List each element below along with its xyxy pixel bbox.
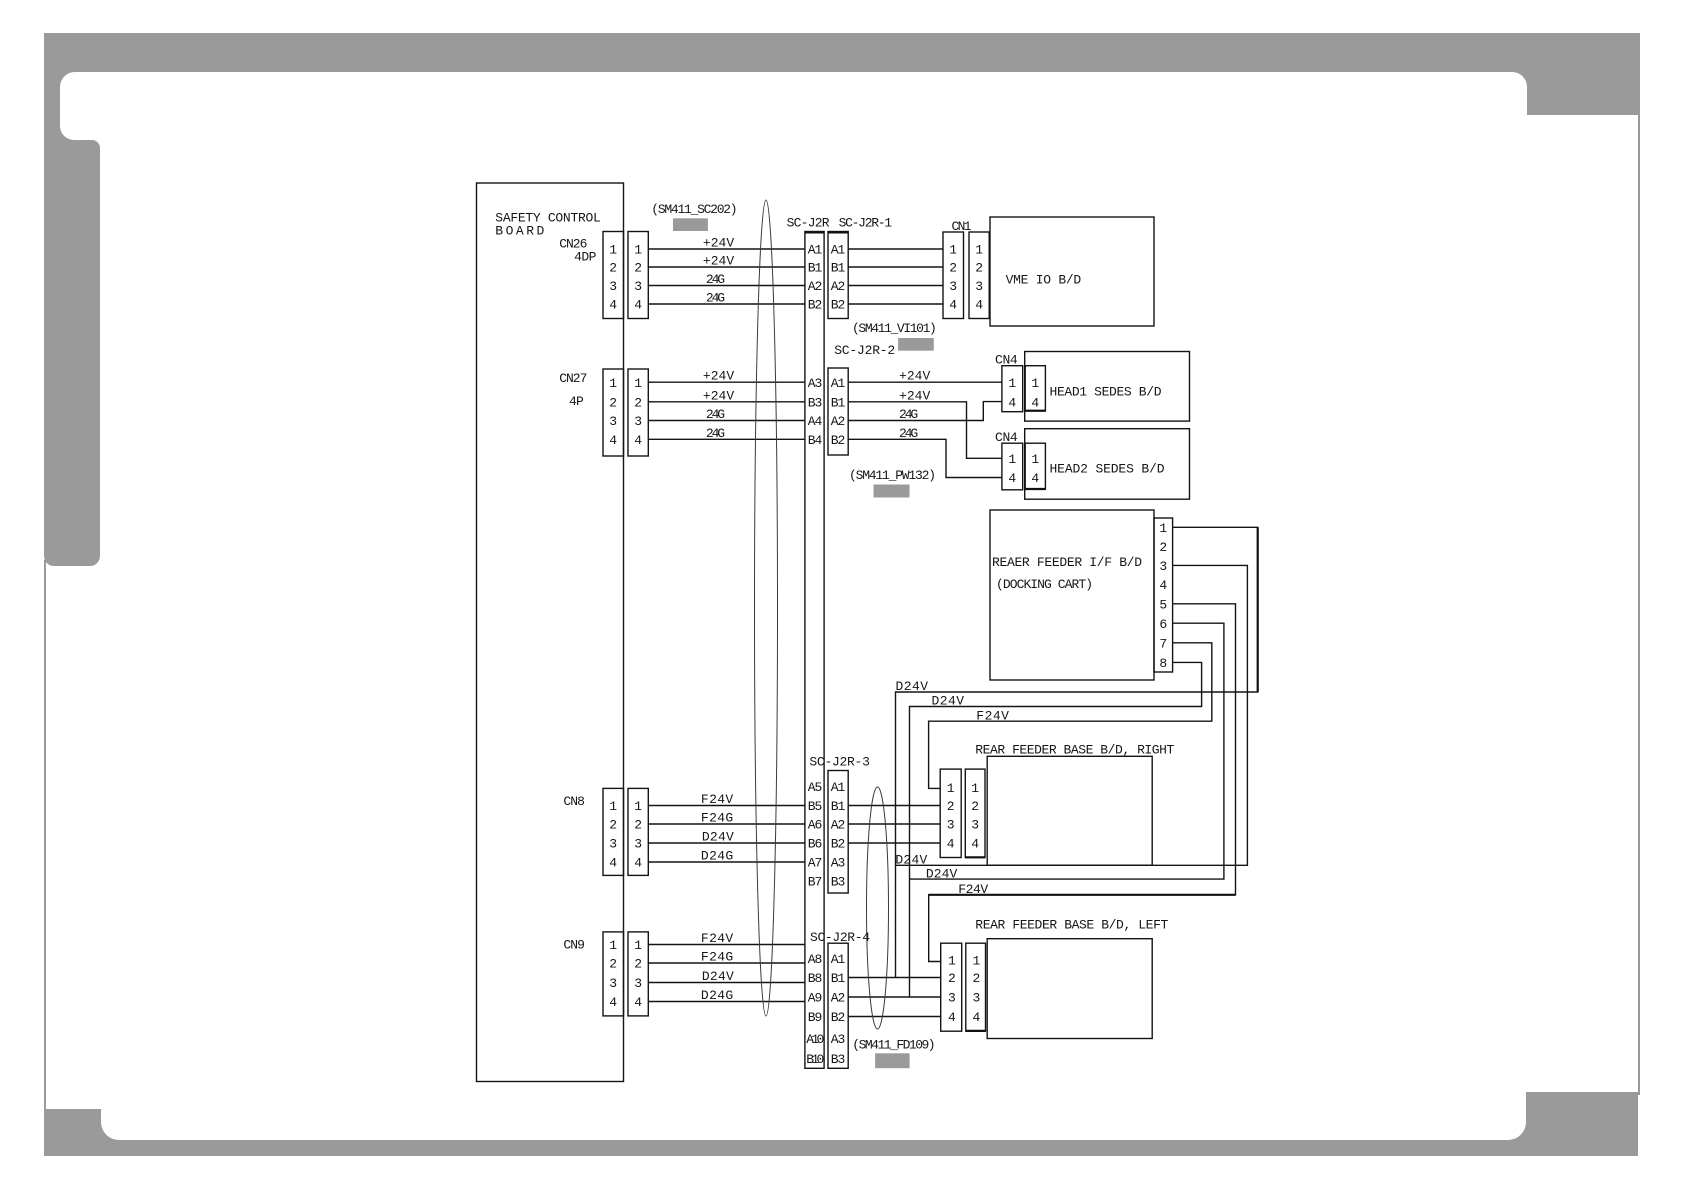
- svg-text:B1: B1: [808, 261, 823, 276]
- svg-text:2: 2: [972, 971, 980, 986]
- svg-text:VME IO B/D: VME IO B/D: [1006, 272, 1082, 287]
- svg-text:F24G: F24G: [701, 811, 733, 826]
- svg-text:4DP: 4DP: [574, 250, 596, 265]
- svg-text:CN1: CN1: [952, 219, 972, 234]
- svg-text:HEAD2 SEDES B/D: HEAD2 SEDES B/D: [1050, 462, 1165, 477]
- svg-text:A1: A1: [831, 243, 846, 258]
- svg-text:A1: A1: [808, 243, 823, 258]
- svg-text:SC-J2R-1: SC-J2R-1: [839, 216, 893, 231]
- svg-text:7: 7: [1159, 637, 1167, 652]
- svg-text:D24V: D24V: [926, 866, 958, 881]
- svg-text:4: 4: [1031, 395, 1039, 410]
- svg-text:CN27: CN27: [559, 371, 587, 386]
- svg-text:1: 1: [609, 243, 617, 258]
- svg-text:4: 4: [1008, 471, 1016, 486]
- svg-text:+24V: +24V: [899, 369, 930, 384]
- svg-text:24G: 24G: [899, 407, 918, 422]
- svg-text:2: 2: [971, 799, 979, 814]
- svg-text:BOARD: BOARD: [495, 224, 544, 239]
- svg-text:2: 2: [634, 396, 642, 411]
- svg-text:4: 4: [947, 837, 955, 852]
- svg-text:1: 1: [609, 799, 617, 814]
- svg-text:1: 1: [975, 243, 983, 258]
- svg-text:A3: A3: [808, 376, 823, 391]
- svg-text:1: 1: [609, 376, 617, 391]
- svg-text:A8: A8: [808, 952, 823, 967]
- svg-text:B1: B1: [831, 799, 846, 814]
- svg-text:B7: B7: [808, 875, 823, 890]
- svg-text:1: 1: [948, 954, 956, 969]
- svg-text:4: 4: [971, 837, 979, 852]
- svg-text:8: 8: [1159, 656, 1167, 671]
- svg-text:4: 4: [609, 298, 617, 313]
- svg-text:D24V: D24V: [702, 830, 734, 845]
- svg-text:4: 4: [634, 298, 642, 313]
- svg-text:1: 1: [1031, 376, 1039, 391]
- svg-text:3: 3: [947, 818, 955, 833]
- svg-text:B2: B2: [831, 433, 846, 448]
- svg-text:4: 4: [1031, 471, 1039, 486]
- svg-text:D24V: D24V: [895, 853, 927, 868]
- svg-text:A2: A2: [831, 279, 846, 294]
- svg-text:6: 6: [1159, 617, 1167, 632]
- svg-text:+24V: +24V: [899, 388, 930, 403]
- svg-text:(SM411_VI101): (SM411_VI101): [852, 321, 937, 336]
- svg-text:B8: B8: [808, 971, 823, 986]
- svg-text:(DOCKING CART): (DOCKING CART): [996, 577, 1093, 592]
- svg-text:+24V: +24V: [703, 254, 734, 269]
- svg-text:2: 2: [975, 261, 983, 276]
- svg-text:4: 4: [634, 433, 642, 448]
- svg-text:B1: B1: [831, 971, 846, 986]
- svg-text:1: 1: [1008, 376, 1016, 391]
- svg-text:CN9: CN9: [563, 938, 585, 953]
- svg-text:A1: A1: [831, 952, 846, 967]
- svg-text:F24V: F24V: [701, 792, 733, 807]
- svg-text:1: 1: [1008, 452, 1016, 467]
- svg-text:24G: 24G: [706, 291, 725, 306]
- svg-text:24G: 24G: [706, 426, 725, 441]
- svg-text:HEAD1 SEDES B/D: HEAD1 SEDES B/D: [1050, 384, 1162, 399]
- svg-text:A1: A1: [831, 376, 846, 391]
- svg-text:3: 3: [975, 279, 983, 294]
- svg-text:3: 3: [948, 991, 956, 1006]
- svg-text:A7: A7: [808, 856, 823, 871]
- svg-text:A2: A2: [831, 991, 846, 1006]
- svg-text:(SM411_FD109): (SM411_FD109): [852, 1038, 935, 1053]
- svg-text:1: 1: [972, 954, 980, 969]
- svg-text:4: 4: [634, 856, 642, 871]
- svg-text:A2: A2: [808, 279, 823, 294]
- svg-text:A4: A4: [808, 414, 823, 429]
- svg-text:+24V: +24V: [703, 388, 734, 403]
- svg-text:4: 4: [609, 995, 617, 1010]
- svg-text:4: 4: [1159, 578, 1167, 593]
- svg-text:CN4: CN4: [995, 430, 1018, 445]
- svg-text:2: 2: [609, 818, 617, 833]
- svg-text:B1: B1: [831, 396, 846, 411]
- svg-text:B2: B2: [831, 298, 846, 313]
- svg-text:1: 1: [634, 243, 642, 258]
- svg-text:D24G: D24G: [701, 849, 733, 864]
- svg-text:+24V: +24V: [703, 369, 734, 384]
- svg-text:D24V: D24V: [896, 679, 929, 694]
- svg-text:2: 2: [949, 261, 957, 276]
- svg-text:3: 3: [634, 414, 642, 429]
- svg-text:D24V: D24V: [702, 969, 734, 984]
- svg-text:A3: A3: [831, 1032, 846, 1047]
- svg-text:F24V: F24V: [701, 931, 733, 946]
- svg-text:A6: A6: [808, 818, 823, 833]
- svg-text:2: 2: [948, 971, 956, 986]
- svg-text:SC-J2R-4: SC-J2R-4: [810, 930, 870, 945]
- svg-text:B3: B3: [831, 875, 846, 890]
- svg-text:4: 4: [634, 995, 642, 1010]
- svg-text:3: 3: [972, 991, 980, 1006]
- svg-text:B3: B3: [831, 1052, 846, 1067]
- svg-text:4: 4: [609, 433, 617, 448]
- svg-text:1: 1: [971, 781, 979, 796]
- svg-text:3: 3: [1159, 559, 1167, 574]
- svg-text:24G: 24G: [899, 426, 918, 441]
- svg-text:+24V: +24V: [703, 236, 734, 251]
- svg-text:D24V: D24V: [932, 694, 965, 709]
- svg-text:SC-J2R: SC-J2R: [787, 216, 830, 231]
- svg-text:3: 3: [634, 837, 642, 852]
- svg-text:2: 2: [609, 957, 617, 972]
- svg-text:B5: B5: [808, 799, 823, 814]
- svg-text:4: 4: [975, 298, 983, 313]
- svg-text:4: 4: [949, 298, 957, 313]
- svg-text:REAER FEEDER I/F B/D: REAER FEEDER I/F B/D: [992, 555, 1142, 570]
- svg-text:2: 2: [634, 818, 642, 833]
- svg-text:A2: A2: [831, 818, 846, 833]
- svg-text:3: 3: [609, 414, 617, 429]
- svg-text:4P: 4P: [569, 394, 584, 409]
- svg-text:5: 5: [1159, 598, 1167, 613]
- svg-text:24G: 24G: [706, 407, 725, 422]
- svg-text:3: 3: [609, 976, 617, 991]
- svg-text:2: 2: [634, 957, 642, 972]
- svg-text:(SM411_PW132): (SM411_PW132): [849, 468, 936, 483]
- svg-text:3: 3: [634, 279, 642, 294]
- svg-text:2: 2: [1159, 540, 1167, 555]
- svg-text:A10: A10: [806, 1032, 824, 1047]
- svg-text:3: 3: [609, 279, 617, 294]
- svg-text:3: 3: [609, 837, 617, 852]
- svg-text:A2: A2: [831, 414, 846, 429]
- svg-text:1: 1: [1159, 521, 1167, 536]
- svg-text:B3: B3: [808, 396, 823, 411]
- svg-text:SC-J2R-2: SC-J2R-2: [834, 343, 895, 358]
- svg-text:4: 4: [1008, 395, 1016, 410]
- svg-text:(SM411_SC202): (SM411_SC202): [651, 202, 737, 217]
- svg-text:A1: A1: [831, 780, 846, 795]
- svg-text:B2: B2: [831, 1010, 846, 1025]
- svg-text:3: 3: [634, 976, 642, 991]
- svg-text:3: 3: [949, 279, 957, 294]
- svg-text:2: 2: [947, 799, 955, 814]
- svg-text:SC-J2R-3: SC-J2R-3: [809, 755, 870, 770]
- svg-text:2: 2: [634, 261, 642, 276]
- svg-text:B10: B10: [806, 1052, 824, 1067]
- svg-text:24G: 24G: [706, 272, 725, 287]
- svg-text:REAR FEEDER BASE B/D, RIGHT: REAR FEEDER BASE B/D, RIGHT: [975, 743, 1174, 758]
- svg-text:1: 1: [1031, 452, 1039, 467]
- svg-text:1: 1: [949, 243, 957, 258]
- svg-text:F24G: F24G: [701, 950, 733, 965]
- svg-text:B2: B2: [831, 837, 846, 852]
- svg-text:A3: A3: [831, 856, 846, 871]
- svg-text:B2: B2: [808, 298, 823, 313]
- svg-text:1: 1: [947, 781, 955, 796]
- svg-text:F24V: F24V: [976, 708, 1009, 723]
- svg-text:B4: B4: [808, 433, 823, 448]
- svg-text:1: 1: [634, 938, 642, 953]
- svg-text:1: 1: [634, 376, 642, 391]
- svg-text:CN4: CN4: [995, 353, 1018, 368]
- svg-text:B9: B9: [808, 1010, 823, 1025]
- svg-text:2: 2: [609, 261, 617, 276]
- svg-text:1: 1: [634, 799, 642, 814]
- svg-text:CN8: CN8: [563, 794, 585, 809]
- svg-text:D24G: D24G: [701, 988, 733, 1003]
- svg-text:A5: A5: [808, 780, 823, 795]
- svg-text:4: 4: [948, 1010, 956, 1025]
- svg-text:F24V: F24V: [958, 882, 988, 897]
- svg-text:3: 3: [971, 818, 979, 833]
- svg-text:B1: B1: [831, 261, 846, 276]
- svg-text:1: 1: [609, 938, 617, 953]
- svg-text:4: 4: [972, 1010, 980, 1025]
- svg-text:REAR FEEDER BASE B/D, LEFT: REAR FEEDER BASE B/D, LEFT: [975, 918, 1168, 933]
- svg-text:2: 2: [609, 396, 617, 411]
- svg-text:A9: A9: [808, 991, 823, 1006]
- svg-text:4: 4: [609, 856, 617, 871]
- svg-text:B6: B6: [808, 837, 823, 852]
